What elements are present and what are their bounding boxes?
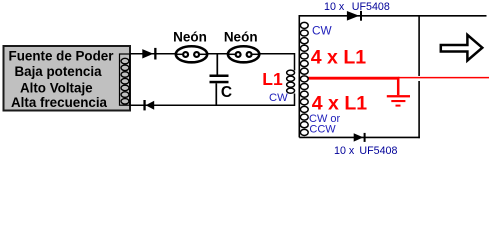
- secondary winding circles: [300, 22, 308, 135]
- power supply box: [4, 46, 131, 111]
- svg-text:CW: CW: [269, 92, 288, 104]
- svg-text:UF5408: UF5408: [352, 1, 390, 13]
- capacitor C: [210, 55, 229, 106]
- svg-text:10 x: 10 x: [324, 1, 345, 13]
- svg-text:C: C: [221, 84, 232, 101]
- svg-text:Neón: Neón: [173, 29, 207, 44]
- svg-text:4 x L1: 4 x L1: [312, 92, 367, 114]
- diode D4 bottom: [354, 133, 366, 142]
- svg-text:10 x: 10 x: [334, 145, 355, 157]
- neon lamp 1: [176, 46, 207, 62]
- svg-text:Alto Voltaje: Alto Voltaje: [20, 80, 93, 95]
- winding on box right edge: [120, 54, 130, 105]
- red center tap wire: [300, 77, 399, 80]
- svg-text:CCW: CCW: [309, 124, 336, 136]
- label 10 x UF5408 (bottom): [334, 145, 397, 157]
- ground: [387, 78, 410, 107]
- svg-text:Baja potencia: Baja potencia: [14, 64, 102, 79]
- red output wire: [398, 77, 489, 79]
- svg-text:CW: CW: [312, 24, 333, 38]
- neon lamp 2: [228, 46, 259, 62]
- label 10 x UF5408 (top): [324, 1, 390, 13]
- svg-text:Fuente de Poder: Fuente de Poder: [9, 49, 115, 64]
- primary winding L1: [287, 70, 295, 93]
- transformer assembly frame: [299, 16, 486, 138]
- svg-text:UF5408: UF5408: [359, 145, 397, 157]
- svg-text:4 x L1: 4 x L1: [311, 47, 366, 69]
- diode D3 top: [347, 11, 362, 21]
- svg-text:Neón: Neón: [224, 29, 258, 44]
- output arrow: [441, 35, 483, 61]
- diode D1 top left: [142, 48, 156, 60]
- top wire: [130, 54, 295, 71]
- bottom wire: [130, 94, 295, 106]
- svg-text:Alta frecuencia: Alta frecuencia: [11, 95, 108, 110]
- svg-text:L1: L1: [262, 69, 283, 89]
- diode D2 bottom left (points left): [143, 100, 154, 110]
